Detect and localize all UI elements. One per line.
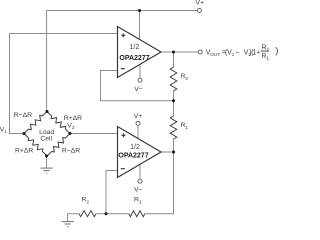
node B (R2/R1 junction) <box>172 99 175 102</box>
svg-text:V−: V− <box>134 86 143 93</box>
wire U1 V+ pin <box>139 11 141 40</box>
svg-text:1: 1 <box>232 52 235 58</box>
resistor R+dR top-right bridge arm <box>47 112 70 134</box>
wire U1 output to VOUT terminal <box>161 51 198 53</box>
resistor R1 vertical <box>170 116 177 139</box>
svg-text:1/2: 1/2 <box>130 144 140 151</box>
ground bottom-left <box>62 222 74 227</box>
svg-text:1: 1 <box>266 55 269 61</box>
node C (U2 output) <box>172 151 175 154</box>
wire R1 bottom to node C <box>173 139 175 152</box>
svg-text:Cell: Cell <box>40 136 52 143</box>
node V2 (bridge right) <box>69 132 72 135</box>
label VOUT formula <box>206 45 279 62</box>
resistor R-dR top-left bridge arm <box>24 112 47 134</box>
wire U2 - input to node D <box>106 171 118 214</box>
wire R2 left to ground <box>68 214 79 222</box>
svg-text:V+: V+ <box>134 113 143 120</box>
wire U2 V- pin <box>139 165 141 180</box>
wire V2 to op-amp U2 + input <box>70 133 118 135</box>
resistor R+dR bottom-left bridge arm <box>24 134 47 157</box>
wire node D to R2 right <box>96 213 106 215</box>
svg-text:−: − <box>236 49 240 56</box>
svg-text:R−ΔR: R−ΔR <box>62 147 80 154</box>
svg-text:OPA2277: OPA2277 <box>119 55 149 62</box>
wire U2 output to node C <box>161 151 174 153</box>
node D (R2/R1 bottom junction) <box>105 212 108 215</box>
node A (U1 output) <box>172 51 175 54</box>
resistor R-dR bottom-right bridge arm <box>47 134 70 157</box>
svg-text:R+ΔR: R+ΔR <box>15 147 33 154</box>
wire U2 V+ pin <box>137 126 139 139</box>
terminal VOUT <box>198 50 202 54</box>
svg-text:R−ΔR: R−ΔR <box>14 112 32 119</box>
wire bridge ground stub <box>46 156 48 168</box>
resistor R1 horizontal <box>129 211 145 217</box>
wire V1 to op-amp U1 + input <box>10 34 118 134</box>
svg-text:OUT: OUT <box>210 52 220 58</box>
svg-text:+: + <box>256 49 260 56</box>
resistor R2 vertical <box>170 67 177 91</box>
node bridge top <box>46 110 49 113</box>
terminal V- U1 <box>138 78 142 82</box>
wire V+ top rail <box>47 11 198 112</box>
svg-text:V+: V+ <box>196 0 205 7</box>
svg-text:V−: V− <box>134 187 143 194</box>
terminal V+ U2 <box>136 121 140 125</box>
svg-text:2: 2 <box>266 47 269 53</box>
node V1 (bridge left) <box>23 132 26 135</box>
wire U1 - input feedback to node B <box>101 71 174 101</box>
node bridge bottom <box>45 155 48 158</box>
svg-text:R+ΔR: R+ΔR <box>64 115 82 122</box>
node V+ pin U1 on rail <box>138 9 141 12</box>
wire U1 V- pin <box>139 65 141 78</box>
wire bottom rail R1 to node D <box>106 213 129 215</box>
wire node C down to bottom rail <box>145 152 174 214</box>
terminal V+ (top) <box>198 9 202 13</box>
svg-text:OPA2277: OPA2277 <box>118 152 148 159</box>
op-amp U2 (1/2 OPA2277) <box>118 127 162 178</box>
ground bridge <box>41 168 53 173</box>
resistor R2 horizontal <box>79 211 96 217</box>
op-amp U1 (1/2 OPA2277) <box>118 27 162 78</box>
wire node A to R2 top <box>173 52 175 67</box>
svg-text:1/2: 1/2 <box>130 44 140 51</box>
wire node B to R1 top <box>173 101 175 116</box>
wire R2 bottom to node B <box>173 91 175 101</box>
terminal V- U2 <box>138 179 142 183</box>
svg-text:): ) <box>275 46 278 57</box>
